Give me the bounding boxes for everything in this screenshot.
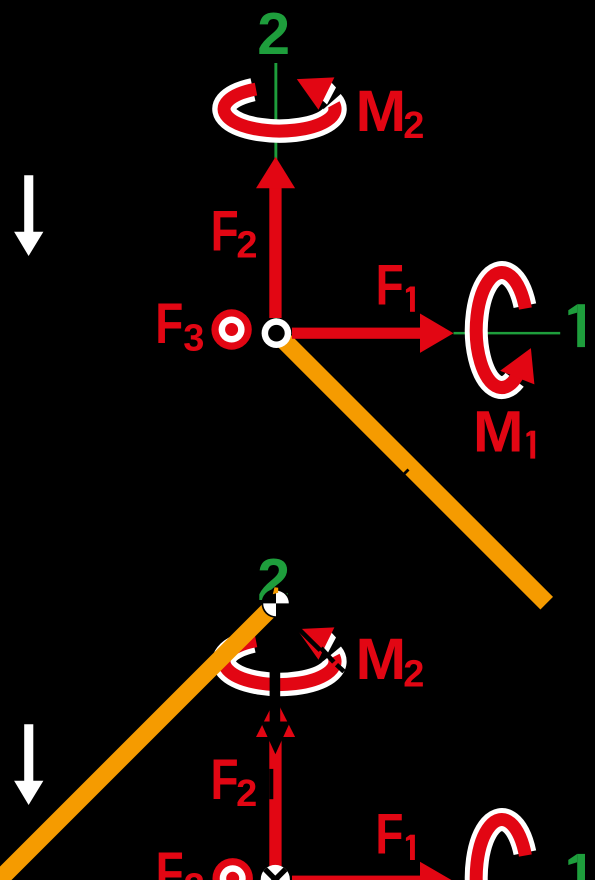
svg-text:F: F xyxy=(155,292,183,356)
origin joint circle with cross (bottom) xyxy=(261,865,290,880)
label F1 (top) xyxy=(376,254,415,318)
black slash dashes over M2 arrowhead (bottom) xyxy=(298,628,344,672)
svg-text:2: 2 xyxy=(236,225,257,267)
label M1 (top) xyxy=(473,399,535,464)
origin joint circle (top) xyxy=(262,318,292,348)
moment M2 red band (top) xyxy=(224,89,335,131)
force F3 out-of-plane symbol (top) xyxy=(211,309,251,349)
axis 1 green line (top) xyxy=(454,332,561,335)
white reference arrow (bottom) xyxy=(14,724,43,805)
svg-text:F: F xyxy=(376,254,404,318)
svg-text:3: 3 xyxy=(183,317,204,359)
label M2 (top) xyxy=(356,78,425,147)
moment M1 white band (top) xyxy=(476,273,525,388)
label M2 (bottom) xyxy=(356,626,425,695)
moment M2 red band (bottom) xyxy=(224,641,335,685)
force F1 arrow (top) xyxy=(292,328,421,339)
label F3 (top) xyxy=(155,292,204,359)
moment M2 band end white wedge (top) xyxy=(322,82,337,105)
black axis bar overlay (bottom) xyxy=(270,652,281,722)
moment M2 arrowhead (bottom) xyxy=(297,627,335,659)
black strip overlay on F2 shaft (bottom) xyxy=(269,769,273,799)
svg-text:3: 3 xyxy=(184,867,205,880)
white reference arrow (top) xyxy=(14,175,43,256)
svg-text:M: M xyxy=(473,399,524,464)
label F1 (bottom) xyxy=(375,803,415,867)
svg-text:M: M xyxy=(356,626,407,691)
force F2 arrow (top) xyxy=(269,186,281,318)
moment M2 white band (bottom) xyxy=(224,641,335,684)
orange bar (bottom figure) xyxy=(0,589,278,880)
moment M2 arrowhead (top) xyxy=(297,77,335,109)
label 1 green (top) xyxy=(568,304,585,347)
axis 2 green line (top) xyxy=(274,63,277,319)
force F2 arrow (bottom, partly blacked out) xyxy=(269,734,281,866)
label 1 green (bottom) xyxy=(568,854,585,880)
svg-text:2: 2 xyxy=(403,654,424,696)
centre of mass symbol (bottom) xyxy=(262,589,291,618)
label F3 (bottom) xyxy=(156,841,205,880)
moment M1 red band (bottom) xyxy=(476,820,525,880)
label F2 (top) xyxy=(211,200,258,267)
black arrowhead overlay (bottom) xyxy=(261,722,291,755)
moment M1 red band (top) xyxy=(476,273,525,388)
label F2 (bottom) xyxy=(211,748,258,814)
svg-text:2: 2 xyxy=(236,773,257,815)
svg-text:F: F xyxy=(211,200,239,264)
force F3 out-of-plane symbol (bottom) xyxy=(213,858,253,880)
moment M1 arrowhead (top) xyxy=(500,348,534,384)
svg-text:F: F xyxy=(211,748,239,812)
svg-text:2: 2 xyxy=(257,1,290,67)
moment M2 band end white wedge (bottom) xyxy=(322,632,337,655)
svg-text:F: F xyxy=(156,841,184,880)
orange bar tip nub above CoM (bottom) xyxy=(273,587,278,594)
svg-text:2: 2 xyxy=(403,105,424,147)
svg-text:F: F xyxy=(375,803,403,867)
small black notch on bar xyxy=(402,469,410,477)
orange bar (top figure) xyxy=(270,327,553,610)
moment M2 white band (top) xyxy=(224,90,335,131)
svg-text:M: M xyxy=(356,78,407,143)
moment M1 white band (bottom) xyxy=(476,820,525,880)
force F1 arrow (bottom) xyxy=(292,876,421,880)
